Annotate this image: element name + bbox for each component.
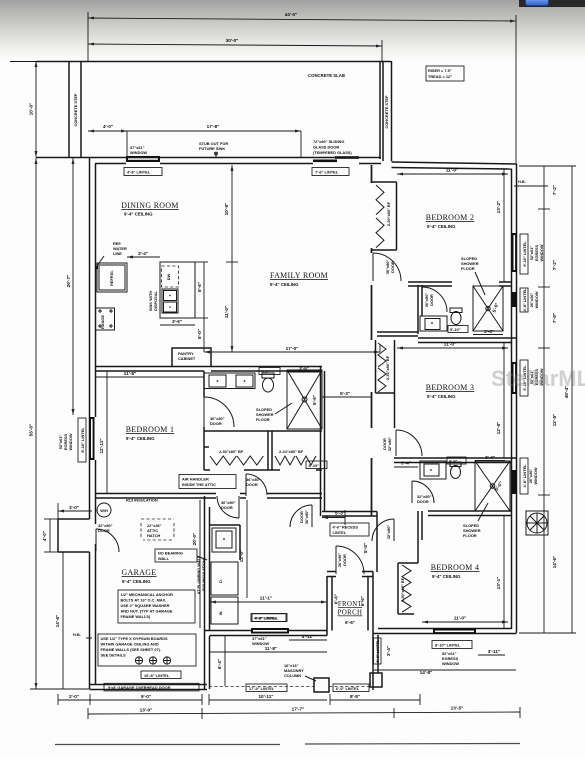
closet row walls under bath1 xyxy=(204,366,325,470)
right outer wall xyxy=(512,164,517,633)
svg-text:HATCH: HATCH xyxy=(147,533,161,538)
svg-text:W/H: W/H xyxy=(100,508,108,513)
bathB sloped shower note xyxy=(463,503,488,538)
svg-text:NO BEARING: NO BEARING xyxy=(158,551,183,556)
svg-text:7'-6" LINTEL: 7'-6" LINTEL xyxy=(315,170,339,175)
refrigerator xyxy=(97,263,127,292)
svg-text:FLOOR: FLOOR xyxy=(256,417,270,422)
svg-text:11'-0": 11'-0" xyxy=(444,342,456,347)
svg-text:BEDROOM 2: BEDROOM 2 xyxy=(426,213,475,222)
svg-text:WINDOW: WINDOW xyxy=(442,661,459,666)
dim 12'-8" bed3 xyxy=(496,343,504,458)
lintel 7'-6" box xyxy=(312,168,349,176)
bathA sloped shower note xyxy=(461,256,485,295)
svg-text:5'-0": 5'-0" xyxy=(197,329,202,339)
svg-text:13'-2": 13'-2" xyxy=(496,201,501,214)
svg-text:R19 INSULATION: R19 INSULATION xyxy=(201,559,206,591)
svg-text:11'-1": 11'-1" xyxy=(260,596,272,601)
door hall to garage xyxy=(217,496,239,518)
svg-text:8'-10" LINTEL: 8'-10" LINTEL xyxy=(435,643,461,648)
svg-text:4'-0": 4'-0" xyxy=(103,124,113,129)
dim 14'-6" left garage xyxy=(55,552,63,689)
svg-text:CONCRETE STEP: CONCRETE STEP xyxy=(384,95,389,128)
recess lintel box xyxy=(330,523,369,536)
room label bedroom4 xyxy=(431,563,480,579)
bed2 bottom wall xyxy=(408,282,512,286)
bathA vanity xyxy=(420,316,447,331)
svg-text:5'-3": 5'-3" xyxy=(335,511,345,516)
R19 plumbing wall note xyxy=(196,555,206,594)
svg-text:7'-2": 7'-2" xyxy=(552,260,557,270)
dim 3'-4" hall right xyxy=(394,461,418,468)
svg-text:D.: D. xyxy=(218,579,223,583)
svg-text:INSIDE THE ATTIC: INSIDE THE ATTIC xyxy=(182,482,216,487)
svg-text:AND NUT. (TYP AT GARAGE: AND NUT. (TYP AT GARAGE xyxy=(121,609,173,614)
wall bathA/bed3 y=338 xyxy=(418,338,517,343)
svg-text:4'-11": 4'-11" xyxy=(302,634,314,639)
svg-text:5'-6": 5'-6" xyxy=(312,395,317,405)
svg-text:14'-8": 14'-8" xyxy=(420,670,433,675)
kitchen island xyxy=(148,262,195,318)
svg-text:SEE DETAILS: SEE DETAILS xyxy=(101,653,127,658)
svg-text:3'-0": 3'-0" xyxy=(69,505,79,510)
svg-text:32"x80": 32"x80" xyxy=(387,437,392,452)
svg-text:DOOR: DOOR xyxy=(246,482,258,487)
hall door to bed4 wing xyxy=(290,505,312,527)
hall bottom wall / garage top wall y=495 xyxy=(96,470,325,516)
svg-text:DISPOSAL: DISPOSAL xyxy=(153,290,158,311)
svg-text:DOOR: DOOR xyxy=(390,261,395,273)
range xyxy=(96,308,115,330)
svg-text:CONCRETE STEP: CONCRETE STEP xyxy=(73,93,78,126)
svg-text:3'-4": 3'-4" xyxy=(401,461,411,466)
window 37x61 top wall xyxy=(126,145,160,162)
svg-text:GLASS DOOR: GLASS DOOR xyxy=(313,145,339,150)
bathA 3'-6" dim xyxy=(473,329,503,335)
water heater W/H xyxy=(97,503,111,517)
svg-text:PORCH: PORCH xyxy=(338,610,363,617)
svg-text:72"x80" SLIDING: 72"x80" SLIDING xyxy=(313,139,344,144)
lintel 4'-8" box kitchen window xyxy=(252,614,286,622)
air handler note box xyxy=(179,475,236,489)
svg-text:9'-0": 9'-0" xyxy=(141,694,151,699)
dim 11'-8" bed1 width xyxy=(95,371,204,377)
dim 4'-0" bump height xyxy=(42,519,58,552)
svg-text:9'-4" CEILING: 9'-4" CEILING xyxy=(126,436,155,441)
svg-text:WINDOW: WINDOW xyxy=(534,291,539,308)
svg-text:9'-4" CEILING: 9'-4" CEILING xyxy=(427,224,456,229)
svg-text:5'-6": 5'-6" xyxy=(197,282,202,292)
dim 11'-8" front xyxy=(210,646,327,652)
wall bathB/bed4 y=513 xyxy=(428,511,512,516)
svg-text:13'-0": 13'-0" xyxy=(239,550,244,563)
svg-text:DW: DW xyxy=(166,273,171,280)
bed4 window 52x61 egress xyxy=(432,629,505,667)
right wall window bed2 52x61 xyxy=(512,233,545,274)
left outer wall xyxy=(90,158,96,690)
bath1 8'-2" box xyxy=(259,368,280,375)
room label dining xyxy=(121,201,179,217)
dryer xyxy=(211,562,238,595)
svg-text:DOOR: DOOR xyxy=(429,294,434,306)
svg-text:9'-4" CEILING: 9'-4" CEILING xyxy=(270,282,299,287)
svg-text:CABINET: CABINET xyxy=(178,356,196,361)
kitchen dims xyxy=(127,251,208,352)
svg-text:3'-6": 3'-6" xyxy=(172,319,182,324)
svg-text:AIR HANDLER: AIR HANDLER xyxy=(182,477,209,482)
svg-text:CONCRETE SLAB: CONCRETE SLAB xyxy=(308,73,345,78)
svg-text:12'-8": 12'-8" xyxy=(496,422,501,435)
dim 30'-0" xyxy=(88,38,382,61)
garage right wall xyxy=(205,496,210,689)
bathA 5'-10" box xyxy=(448,326,468,333)
garage side door 32x80 xyxy=(96,523,119,552)
svg-text:9'-4" CEILING: 9'-4" CEILING xyxy=(122,579,151,584)
right wall window bathA 26x26 xyxy=(512,288,540,312)
svg-text:4'-6" RECESS: 4'-6" RECESS xyxy=(333,525,359,530)
svg-text:W.: W. xyxy=(218,611,223,616)
svg-text:6'-6": 6'-6" xyxy=(345,620,355,625)
svg-text:BEDROOM 3: BEDROOM 3 xyxy=(426,383,475,392)
svg-text:RANGE: RANGE xyxy=(100,315,105,329)
svg-text:WINDOW: WINDOW xyxy=(68,433,73,450)
svg-text:H.B.: H.B. xyxy=(73,632,81,637)
bathB shower xyxy=(475,461,510,511)
svg-text:44'-0": 44'-0" xyxy=(285,12,298,17)
dim 14'-8" bed4 bottom xyxy=(374,670,516,675)
svg-text:1/2" MECHANICAL ANCHOR: 1/2" MECHANICAL ANCHOR xyxy=(121,592,174,597)
dim 26'-7" left xyxy=(66,158,75,415)
dim 11'-1" xyxy=(210,596,327,604)
lintel 4'-8" box xyxy=(124,168,162,176)
far right dim 49'-4" xyxy=(519,166,576,633)
dim 12'-11" bed1 xyxy=(99,371,107,493)
svg-text:10'-8": 10'-8" xyxy=(224,203,229,216)
kitchen/bed1 wall y=368 xyxy=(96,367,323,372)
svg-text:DOOR: DOOR xyxy=(221,505,233,510)
svg-text:30'-0": 30'-0" xyxy=(226,38,239,43)
bathB door xyxy=(412,481,434,504)
dim 5'-3" hall xyxy=(322,391,371,397)
svg-text:3'-4": 3'-4" xyxy=(485,455,495,460)
bathA toilet xyxy=(450,308,462,325)
bedroom4 bottom wall xyxy=(373,629,517,634)
svg-text:9'-4" CEILING: 9'-4" CEILING xyxy=(427,394,456,399)
top wall left section (outer/inner) xyxy=(36,158,381,164)
bedroom2 entry door xyxy=(373,253,401,281)
dim 13'-2" bed2 xyxy=(496,169,504,282)
long wall family/bedrooms x=371 xyxy=(371,165,373,516)
concrete slab right edge xyxy=(379,61,381,159)
garage gypsum note box xyxy=(98,634,196,666)
dim 5'-3" hall lower xyxy=(322,510,345,525)
bathA left wall + door xyxy=(418,285,447,334)
dim 11'-0" bed4 xyxy=(422,616,508,624)
hall bottom wall y=513 center xyxy=(322,512,377,573)
dim 4'-11" xyxy=(289,634,327,640)
front wall window 37x61 xyxy=(251,614,289,647)
svg-text:BEDROOM 1: BEDROOM 1 xyxy=(126,425,175,434)
svg-text:3'-4": 3'-4" xyxy=(386,646,391,656)
svg-text:WALL: WALL xyxy=(158,556,170,561)
sliding glass door symbol xyxy=(313,156,359,162)
svg-text:BEDROOM 4: BEDROOM 4 xyxy=(431,563,480,572)
bedroom3 entry door xyxy=(382,430,422,456)
dim 4'-0" window offset xyxy=(88,124,127,133)
bedroom3 closet xyxy=(376,340,395,428)
laundry: small cab xyxy=(212,528,236,552)
svg-text:REFRIG.: REFRIG. xyxy=(109,270,114,286)
dim 11'-0" bed2 xyxy=(397,168,508,176)
svg-text:5'-8": 5'-8" xyxy=(363,543,368,553)
porch right wall labels xyxy=(374,638,392,664)
svg-text:8'-2": 8'-2" xyxy=(262,369,271,374)
dim 10'-0" left vertical xyxy=(10,61,40,157)
svg-text:32"x80": 32"x80" xyxy=(386,525,391,540)
svg-text:5'-10" LINTEL: 5'-10" LINTEL xyxy=(522,241,527,267)
svg-text:TREAD = 12": TREAD = 12" xyxy=(428,74,452,79)
svg-text:2'-0": 2'-0" xyxy=(69,694,79,699)
svg-text:DOOR: DOOR xyxy=(417,499,429,504)
svg-text:FLOOR: FLOOR xyxy=(463,533,477,538)
svg-text:11'-8": 11'-8" xyxy=(124,371,136,376)
svg-text:12'-11": 12'-11" xyxy=(99,438,104,453)
dim 17'-8" xyxy=(127,124,301,157)
svg-text:WITHIN GARAGE CEILING AND: WITHIN GARAGE CEILING AND xyxy=(101,642,159,647)
garage anchor note box xyxy=(118,590,195,623)
svg-text:6'-0": 6'-0" xyxy=(449,459,458,464)
svg-text:7'-8": 7'-8" xyxy=(552,313,557,323)
no bearing wall box xyxy=(155,549,207,562)
bedroom2 closet bifold xyxy=(372,182,397,250)
svg-text:DOOR: DOOR xyxy=(210,421,222,426)
wall bed3/bathB y=460 xyxy=(394,458,517,463)
svg-text:FLOOR: FLOOR xyxy=(461,266,475,271)
10'-8" lintel box xyxy=(141,671,181,679)
svg-text:14'-6": 14'-6" xyxy=(55,615,60,628)
bathB toilet xyxy=(450,462,461,479)
svg-text:5'-0": 5'-0" xyxy=(492,302,500,313)
bed4 left closet walls xyxy=(398,511,422,614)
svg-text:DOOR: DOOR xyxy=(98,528,110,533)
svg-text:8'-8": 8'-8" xyxy=(350,694,360,699)
room label front porch xyxy=(338,601,363,625)
bottom page lines xyxy=(55,744,520,745)
svg-text:4'-0": 4'-0" xyxy=(42,531,47,541)
svg-text:9'-4" CEILING: 9'-4" CEILING xyxy=(432,574,461,579)
dim 13'-1" bed4 xyxy=(496,516,504,628)
svg-text:7'-2": 7'-2" xyxy=(552,185,557,195)
svg-text:2-30"x80" BF: 2-30"x80" BF xyxy=(385,355,390,380)
garage bump-out left xyxy=(58,519,90,552)
dim 44'-0" overall top xyxy=(88,12,516,163)
porch right wall xyxy=(368,572,378,691)
porch lintel dashed xyxy=(209,684,371,692)
front door 36x96 arc xyxy=(336,546,364,574)
svg-text:4'-8" LINTEL: 4'-8" LINTEL xyxy=(255,616,279,621)
bath1 sloped shower note xyxy=(256,403,292,422)
garage bottom wall with overhead door xyxy=(90,683,208,691)
svg-text:(TEMPERED GLASS): (TEMPERED GLASS) xyxy=(313,150,352,155)
svg-text:11'-0": 11'-0" xyxy=(446,168,458,173)
svg-text:4'-8" LINTEL: 4'-8" LINTEL xyxy=(522,464,527,488)
attic hatch dashed xyxy=(141,519,174,540)
concrete step left xyxy=(69,62,81,157)
svg-text:11'-8": 11'-8" xyxy=(265,646,277,651)
hall wall below bathA xyxy=(377,332,418,336)
svg-text:36"x80": 36"x80" xyxy=(304,510,309,525)
right dim column segments xyxy=(520,166,557,633)
ref water line note xyxy=(95,241,127,269)
sliding glass door label xyxy=(313,139,352,155)
svg-text:14'-6": 14'-6" xyxy=(552,556,557,569)
closet bifold 2-24x80 xyxy=(275,449,316,465)
svg-text:55'-0": 55'-0" xyxy=(29,424,34,437)
svg-text:DINING ROOM: DINING ROOM xyxy=(121,201,179,210)
dim 13'-0" xyxy=(239,500,247,598)
dim 20'-0" garage xyxy=(192,500,200,628)
dim 3'-0" left bump xyxy=(58,503,92,519)
dim 17'-0" xyxy=(204,345,380,354)
svg-text:DOOR: DOOR xyxy=(342,554,347,566)
svg-text:17'-7": 17'-7" xyxy=(292,707,305,712)
svg-text:26'-7": 26'-7" xyxy=(66,275,71,288)
room label garage xyxy=(122,568,157,584)
svg-text:8'-10": 8'-10" xyxy=(309,463,320,468)
svg-text:WINDOW: WINDOW xyxy=(130,150,147,155)
washer xyxy=(211,597,238,624)
room label bedroom3 xyxy=(426,383,475,399)
svg-text:13'-5": 13'-5" xyxy=(451,706,464,711)
dim 6'-4" porch depth xyxy=(217,636,225,686)
bath1 toilet xyxy=(262,373,274,392)
svg-text:WINDOW: WINDOW xyxy=(533,467,538,484)
dim 10'-8"/11'-0" family vertical xyxy=(224,165,238,352)
bottom dim row2 xyxy=(88,706,520,720)
bathB 3'-4" dim xyxy=(475,455,505,461)
stub out for future sink note xyxy=(199,141,228,157)
svg-text:RISER = 7.5": RISER = 7.5" xyxy=(428,68,452,73)
dim 55'-0" left xyxy=(29,158,90,689)
bath1 3'-6" dim xyxy=(287,366,320,372)
svg-text:LINE: LINE xyxy=(113,251,122,256)
svg-text:11'-0": 11'-0" xyxy=(454,616,466,621)
svg-text:10'-0": 10'-0" xyxy=(29,103,34,116)
svg-text:2-30"x80" BF: 2-30"x80" BF xyxy=(400,577,405,602)
svg-text:3'-4": 3'-4" xyxy=(138,251,148,256)
porch side dims 6'-6" xyxy=(334,594,366,606)
svg-text:DOOR: DOOR xyxy=(382,438,387,450)
svg-text:8'-10" LINTEL: 8'-10" LINTEL xyxy=(80,427,85,453)
svg-text:13'-1": 13'-1" xyxy=(496,577,501,590)
svg-text:USE 2" SQUARE WASHER: USE 2" SQUARE WASHER xyxy=(121,603,170,608)
svg-text:FRONT: FRONT xyxy=(338,601,363,608)
svg-text:3'-11": 3'-11" xyxy=(488,649,500,654)
svg-text:10'-11": 10'-11" xyxy=(258,694,273,699)
svg-text:6'-0" LINTEL: 6'-0" LINTEL xyxy=(336,686,360,691)
concrete step right xyxy=(383,61,392,161)
svg-text:2-24"x80" BF: 2-24"x80" BF xyxy=(279,449,304,454)
bottom dim row1 xyxy=(58,694,420,705)
svg-text:20'-0": 20'-0" xyxy=(192,533,197,546)
svg-text:10'-8" LINTEL: 10'-8" LINTEL xyxy=(144,673,170,678)
svg-text:FRAME WALLS (SEE SHEET 07): FRAME WALLS (SEE SHEET 07). xyxy=(101,647,162,652)
svg-text:6'-4": 6'-4" xyxy=(217,659,222,669)
bath1 shower xyxy=(287,370,322,429)
left wall window 52x61 egress xyxy=(89,417,95,460)
right wall window bathB 26x26 xyxy=(512,458,539,494)
svg-text:DOOR: DOOR xyxy=(299,511,304,523)
svg-text:12'-5": 12'-5" xyxy=(552,414,557,427)
pantry cabinet xyxy=(172,348,211,367)
svg-text:5'-8" LINTEL: 5'-8" LINTEL xyxy=(375,639,380,663)
svg-text:6'-6": 6'-6" xyxy=(360,596,365,606)
svg-text:6'-6": 6'-6" xyxy=(334,594,339,604)
svg-text:R13 INSULATION: R13 INSULATION xyxy=(126,498,158,503)
left egress window labels xyxy=(58,418,86,462)
svg-text:COLUMN: COLUMN xyxy=(284,673,301,678)
svg-text:5'-10": 5'-10" xyxy=(450,327,461,332)
svg-text:FRAME WALLS): FRAME WALLS) xyxy=(121,614,152,619)
bathB vanity xyxy=(420,461,446,479)
dim 8'-0" box hall xyxy=(306,461,327,469)
bath1 vanity xyxy=(204,373,255,389)
AC condenser unit xyxy=(526,511,548,535)
svg-text:FAMILY ROOM: FAMILY ROOM xyxy=(270,271,328,280)
svg-text:9'-4" CEILING: 9'-4" CEILING xyxy=(124,212,153,217)
svg-text:17'-8": 17'-8" xyxy=(207,124,220,129)
bath1 / bed1 dividing wall x=204 xyxy=(203,371,205,433)
room label family xyxy=(270,271,328,287)
svg-text:H.B.: H.B. xyxy=(518,179,526,184)
masonry column 16x16 xyxy=(284,663,329,692)
svg-text:LINTEL: LINTEL xyxy=(333,530,347,535)
svg-text:17'-0": 17'-0" xyxy=(286,346,299,351)
svg-text:3'-6": 3'-6" xyxy=(484,329,494,334)
svg-text:BOLTS AT 16" O.C. MAX.: BOLTS AT 16" O.C. MAX. xyxy=(121,598,167,603)
svg-text:GARAGE: GARAGE xyxy=(122,568,157,577)
hose bib left xyxy=(73,632,92,638)
bed4 entry door xyxy=(372,519,394,541)
svg-text:11'-0": 11'-0" xyxy=(224,306,229,318)
svg-text:WINDOW: WINDOW xyxy=(539,244,544,261)
dim 11'-0" bed3 xyxy=(397,342,508,350)
porch pier xyxy=(370,673,382,687)
svg-text:9'x8' GARAGE OVERHEAD DOOR: 9'x8' GARAGE OVERHEAD DOOR xyxy=(108,685,171,690)
hose bib right xyxy=(514,179,526,186)
svg-text:2-30"x80" BF: 2-30"x80" BF xyxy=(219,449,244,454)
concrete slab top edge xyxy=(36,61,391,63)
bathA shower xyxy=(473,286,503,331)
svg-text:USE 1/2" TYPE X GYPSUM BO: USE 1/2" TYPE X GYPSUM BOARDS xyxy=(101,636,169,641)
svg-text:2-30"x80" BF: 2-30"x80" BF xyxy=(386,201,391,226)
svg-text:13'-0": 13'-0" xyxy=(140,708,153,713)
bathB 6'-0" box xyxy=(447,457,466,464)
svg-text:17'-9" LINTEL: 17'-9" LINTEL xyxy=(249,686,275,691)
porch left wall xyxy=(327,576,332,636)
room label bedroom2 xyxy=(426,213,475,229)
front wall left of porch xyxy=(205,631,328,636)
bath1 door from bed1 xyxy=(204,397,234,427)
room label bedroom1 xyxy=(126,425,175,441)
riser/tread note box xyxy=(426,66,464,81)
svg-text:4'-8" LINTEL: 4'-8" LINTEL xyxy=(522,288,527,312)
svg-text:5'-3": 5'-3" xyxy=(340,391,350,396)
porch top wall + front door opening xyxy=(327,572,373,577)
laundry nook walls xyxy=(210,525,241,560)
right wall window bed3 52x61 xyxy=(512,360,545,396)
door hall to bed1 area xyxy=(246,474,267,496)
